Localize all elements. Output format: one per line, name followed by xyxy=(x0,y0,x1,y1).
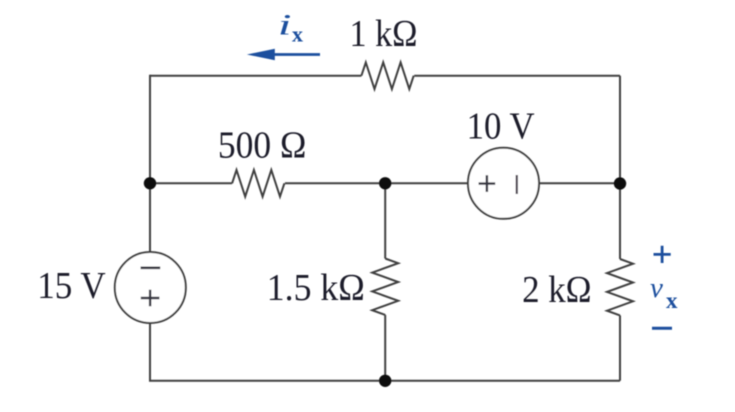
resistor R 2 kOhm xyxy=(607,259,633,315)
wire left vertical upper xyxy=(149,75,151,252)
svg-text:10 V: 10 V xyxy=(467,106,536,148)
svg-text:i: i xyxy=(278,8,292,41)
wire middle vertical upper xyxy=(384,183,386,258)
wire middle vertical lower xyxy=(384,315,386,381)
resistor R 1.5 kOhm xyxy=(372,259,398,315)
wire right vertical lower xyxy=(619,315,621,380)
svg-text:1 kΩ: 1 kΩ xyxy=(350,13,418,55)
resistor R 500 Ohm xyxy=(232,170,284,197)
V2 plus sign xyxy=(479,175,496,192)
wire bottom xyxy=(149,380,620,382)
svg-text:2 kΩ: 2 kΩ xyxy=(522,269,592,311)
current arrow i_x xyxy=(273,53,320,56)
V1 plus sign xyxy=(141,290,160,306)
label minus of v_x xyxy=(652,327,672,330)
svg-text:x: x xyxy=(292,22,303,47)
svg-text:v: v xyxy=(650,272,663,304)
V1 minus sign xyxy=(141,266,161,269)
node dot center middle xyxy=(379,177,391,189)
wire 500ohm-to-10V source xyxy=(285,182,468,184)
wire right vertical upper xyxy=(619,76,621,259)
voltage source V1 15V circle xyxy=(115,252,186,323)
wire top resistor-to-right xyxy=(414,75,620,77)
svg-text:1.5 kΩ: 1.5 kΩ xyxy=(267,267,365,309)
label plus of v_x xyxy=(654,246,671,263)
svg-text:x: x xyxy=(666,288,678,313)
svg-text:500 Ω: 500 Ω xyxy=(218,125,307,167)
voltage source V2 10V circle xyxy=(468,148,539,219)
resistor R 1 kOhm xyxy=(361,62,413,89)
label i_x xyxy=(278,8,292,41)
wire left vertical lower xyxy=(149,323,151,381)
node dot bottom center xyxy=(379,375,391,387)
node dot left middle xyxy=(144,177,156,189)
svg-text:15 V: 15 V xyxy=(37,265,106,307)
wire middle node-to-500ohm xyxy=(150,182,232,184)
wire 10V source-to-right node xyxy=(539,182,620,184)
node dot right middle xyxy=(614,177,626,189)
V2 minus bar xyxy=(516,175,518,194)
wire top left-to-resistor xyxy=(150,75,361,77)
